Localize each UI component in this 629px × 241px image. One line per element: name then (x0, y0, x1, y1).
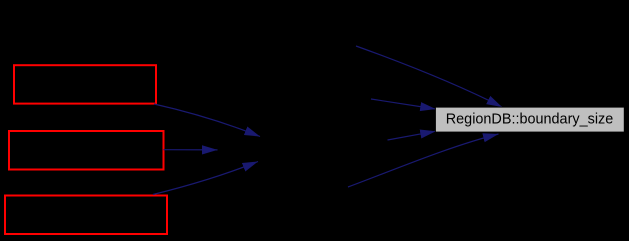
edge from hidden node into lower-left of gray node (388, 131, 436, 140)
edge from hidden top node into top of gray node (356, 46, 502, 107)
svg-text:RegionDB::boundary_size: RegionDB::boundary_size (446, 110, 614, 127)
node (truncated caller box, middle-left) (9, 131, 164, 170)
edge from middle-left box to hidden middle node (164, 149, 218, 151)
edge from hidden node into left of gray node (371, 99, 436, 109)
node (truncated caller box, top-left) (14, 65, 156, 103)
edge from top-left box to hidden middle node (154, 104, 260, 137)
edge from bottom-left box to hidden middle node (153, 162, 258, 195)
node (truncated caller box, bottom-left) (5, 196, 167, 235)
node RegionDB::boundary_size (current node, gray) (435, 107, 624, 132)
edge from hidden bottom node into bottom of gray node (curved) (348, 134, 499, 187)
